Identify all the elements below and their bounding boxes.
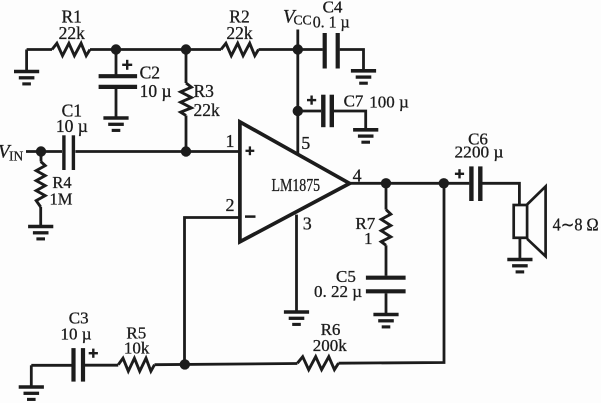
node junction C2/R1 [111,44,121,54]
capacitor C4 [325,33,338,69]
wire pin 3 ground lead [295,215,298,311]
svg-text:5: 5 [301,133,310,153]
ground (below R4) [28,227,53,239]
wire R5 to R6 [155,364,298,365]
node pin1/R3 junction [181,146,191,156]
R4 label [50,173,73,209]
C2 label [140,62,172,101]
capacitor C2 [99,60,138,87]
svg-text:0. 1 µ: 0. 1 µ [313,13,350,32]
wire C1 to pin 1 [75,150,240,153]
svg-text:10 µ: 10 µ [60,324,91,343]
ground (top-left, R1 return) [14,50,39,84]
node pin2 feedback junction [180,359,190,369]
resistor R7 [381,210,391,246]
svg-text:R3: R3 [194,81,215,101]
svg-text:4∼8 Ω: 4∼8 Ω [553,215,599,235]
svg-text:3: 3 [303,213,312,233]
op-amp non-inverting input marker [246,150,255,152]
node C7 junction [293,106,303,116]
node junction R3 top [181,44,191,54]
node Vcc junction [293,44,303,54]
wire top rail right segment [259,48,323,51]
svg-text:100 µ: 100 µ [369,92,409,111]
wire C5 bottom lead [385,293,388,313]
wire C7 left lead [298,110,321,113]
svg-text:LM1875: LM1875 [272,175,321,195]
wire bottom rail to C3 [31,364,71,367]
svg-text:CC: CC [294,12,312,27]
wire R7 to C5 [385,245,388,275]
wire output rail [350,182,470,185]
ground (below C7) [353,130,378,142]
wire Vcc vertical to pin 5 [296,30,299,154]
C5 label [314,267,362,301]
resistor R5 [118,358,154,371]
ground (below C5) [373,315,398,327]
C3 label [60,308,91,343]
wire top rail left segment [27,48,52,51]
wire pin 2 to feedback node [185,218,241,365]
wire R7 top lead [385,183,388,209]
svg-text:0. 22 µ: 0. 22 µ [314,282,362,301]
op-amp U1 LM1875 triangle [240,122,350,242]
node feedback junction [439,178,449,188]
capacitor C7 [307,95,332,128]
C6 label [455,129,504,161]
R1 label [59,6,86,43]
svg-text:22k: 22k [226,23,253,43]
wire C6 to speaker [483,183,520,205]
resistor R2 [221,43,259,55]
R2 label [226,6,253,43]
wire R4 top lead [40,152,43,162]
svg-text:C2: C2 [140,62,160,82]
op-amp inverting input marker [245,215,256,218]
wire top rail middle segment [90,48,221,51]
svg-text:22k: 22k [194,100,221,120]
R5 label [124,324,150,358]
capacitor C6 [455,166,480,201]
capacitor C3 [74,348,98,382]
svg-text:1M: 1M [50,190,73,209]
svg-text:10k: 10k [124,339,150,358]
wire C3 to R5 [85,364,118,367]
ground (below C4) [351,71,376,83]
R3 label [194,81,221,120]
wire input to C1 [26,150,62,153]
svg-text:IN: IN [9,149,23,164]
svg-text:C7: C7 [344,91,364,110]
capacitor C1 [64,135,74,170]
ground (below C2) [103,118,128,130]
ground (bottom-left, C3 return) [19,365,44,399]
node R4 junction [36,146,46,156]
C7 label [344,91,409,111]
wire C2 bottom lead [115,89,118,117]
wire C7 right lead [334,111,366,129]
C1 label [56,101,88,136]
R7 label [355,214,375,248]
svg-text:10 µ: 10 µ [56,116,88,136]
resistor R6 [297,357,338,370]
svg-text:4: 4 [353,165,362,185]
C4 label [313,0,350,32]
svg-text:1: 1 [364,229,373,248]
wire C2 top lead [115,50,118,75]
wire R6 to feedback riser [339,183,445,363]
R6 label [313,320,348,355]
wire R3 top lead [185,50,188,84]
ground (below pin 3) [284,312,309,324]
speaker LS1 body [514,205,527,238]
capacitor C5 [366,278,406,292]
svg-text:10 µ: 10 µ [140,81,172,101]
speaker LS1 cone [527,186,546,256]
resistor R3 [181,83,192,116]
ground (below speaker) [507,260,532,272]
wire R4 bottom lead [39,207,42,226]
resistor R4 [36,162,45,208]
svg-text:22k: 22k [59,23,86,43]
resistor R1 [52,43,90,55]
wire C4 right lead [340,50,364,71]
svg-text:2: 2 [226,195,235,215]
node R7 junction [381,178,391,188]
svg-text:200k: 200k [313,336,348,355]
svg-text:2200 µ: 2200 µ [455,143,504,162]
wire speaker ground lead [519,238,522,259]
wire R3 bottom lead [185,116,188,152]
svg-text:1: 1 [226,131,235,151]
